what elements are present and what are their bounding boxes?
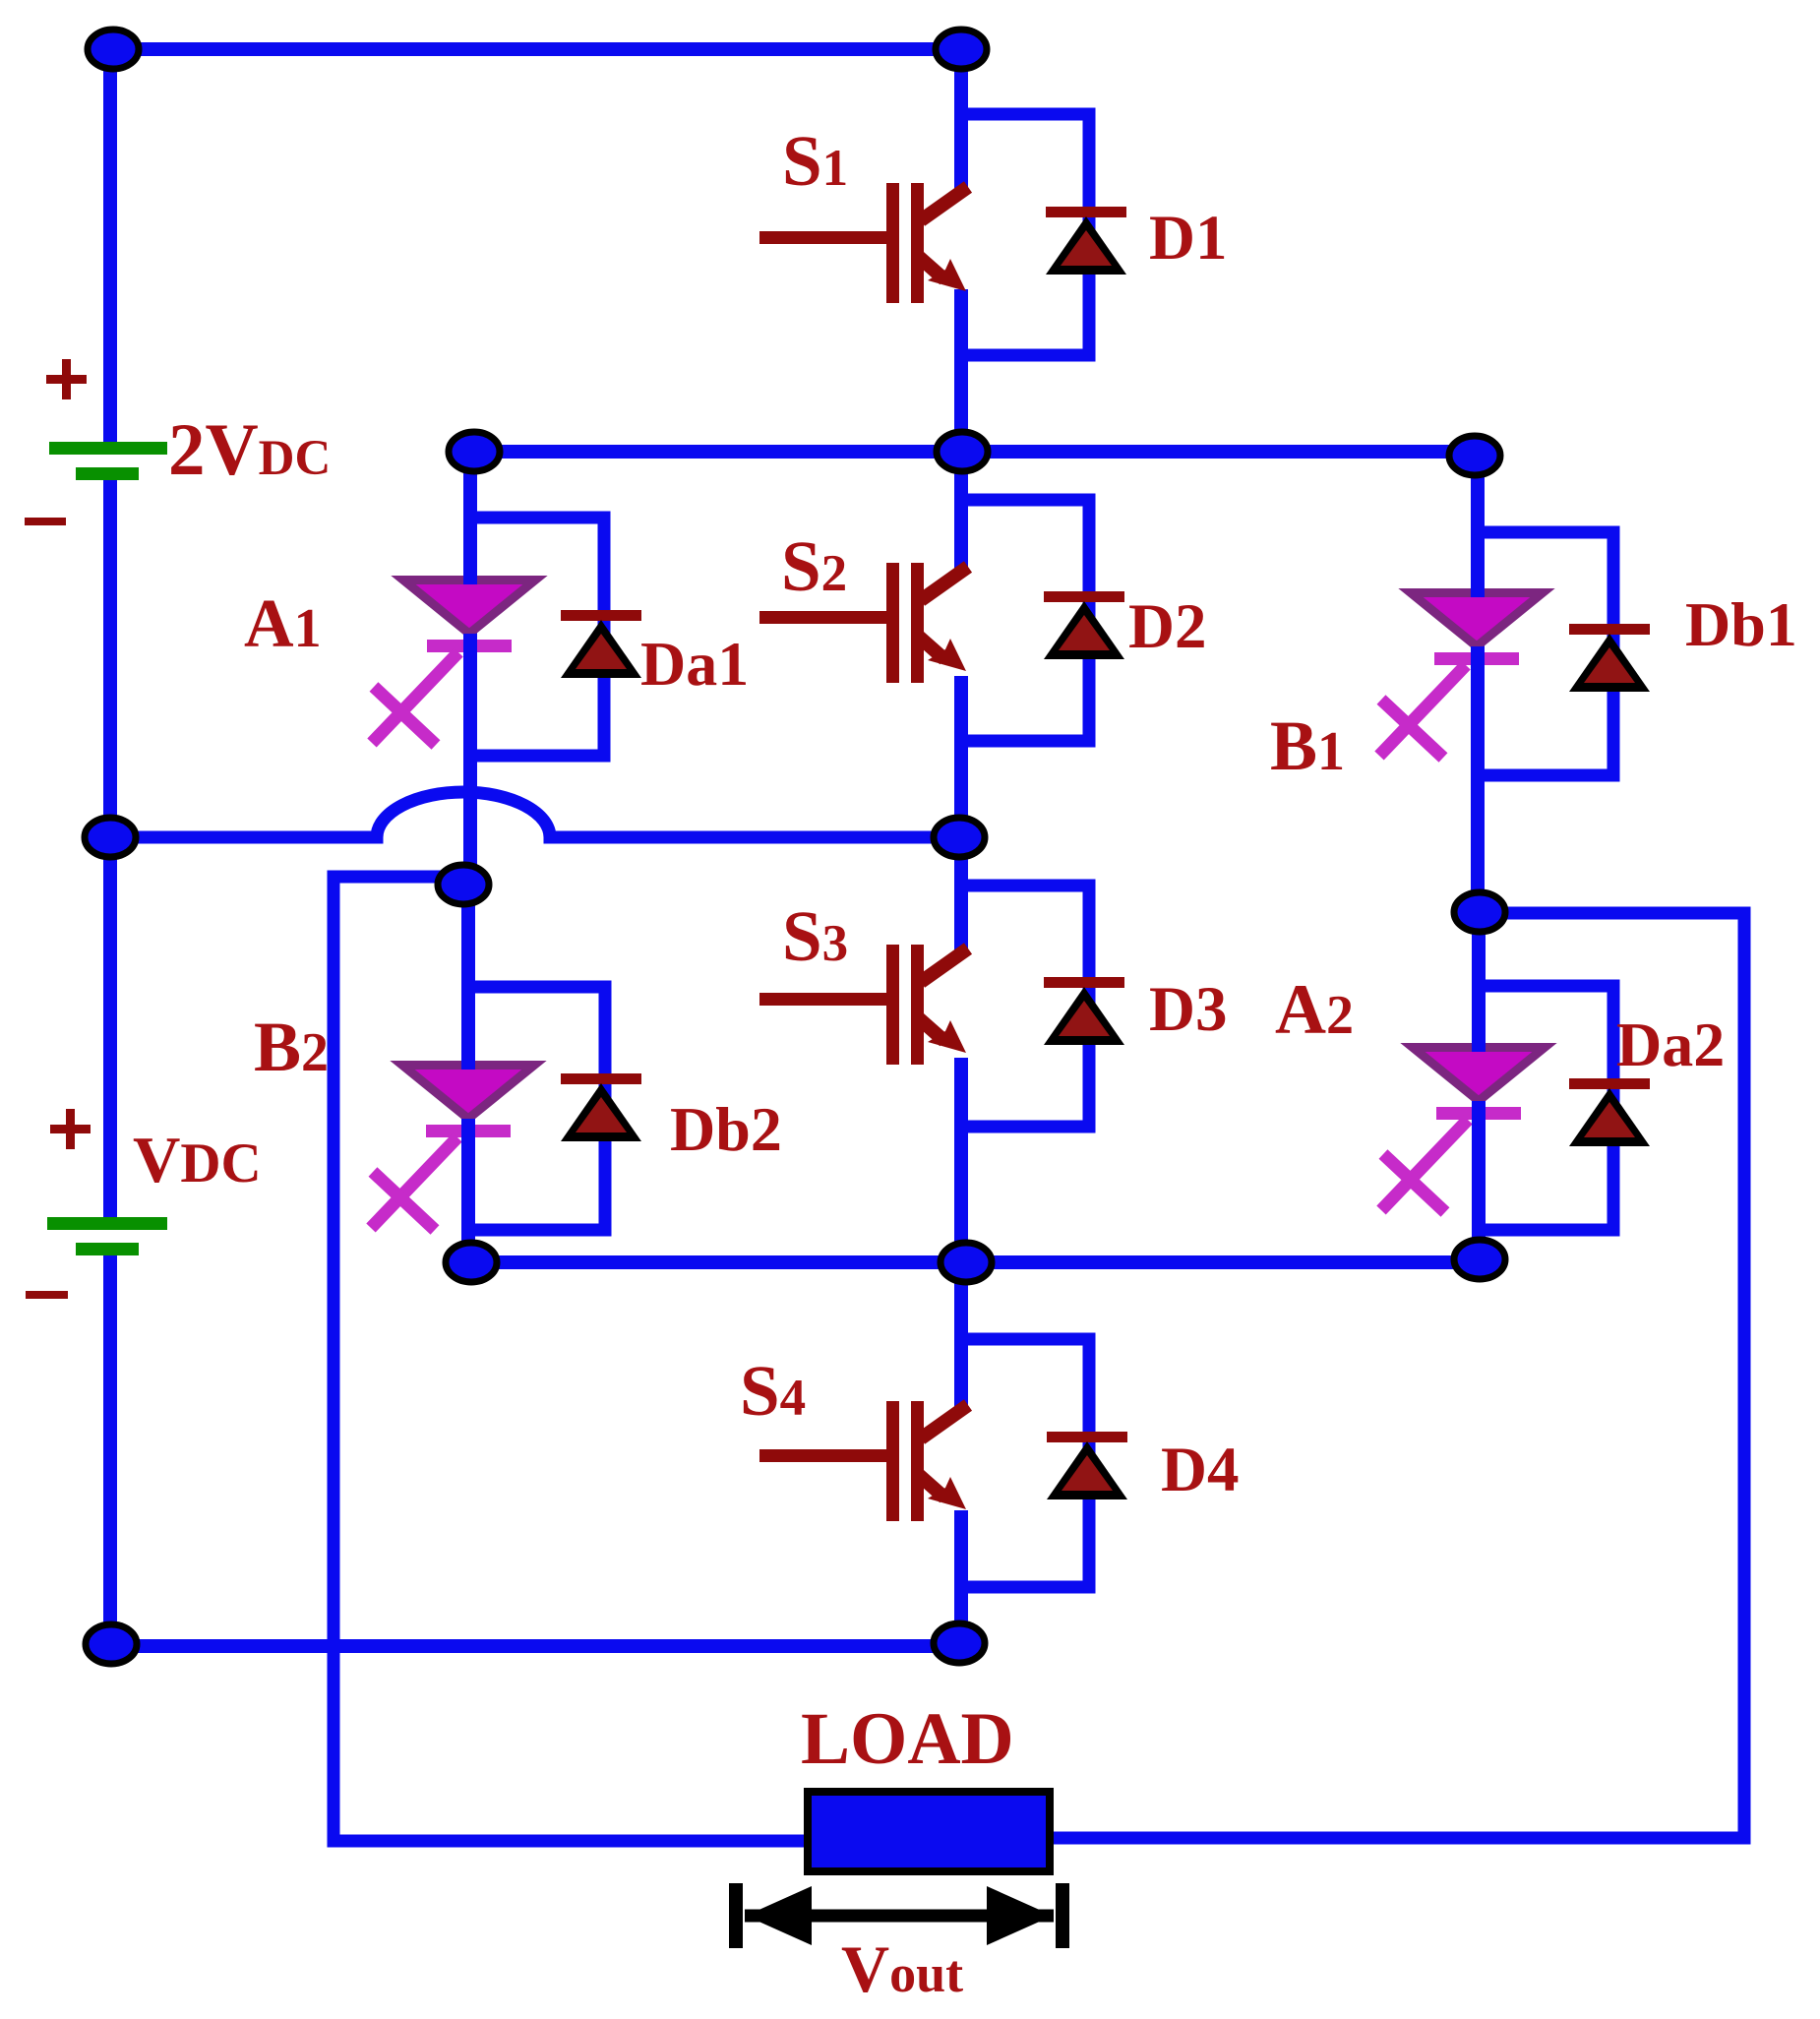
wire S2 collector [954, 452, 968, 571]
wire S3 collector [954, 837, 968, 952]
node N3 [449, 432, 500, 471]
transistor S4 [759, 1401, 968, 1521]
thyristor switch B1 [1379, 593, 1543, 759]
wire left spine from VDC - to bottom node [103, 1252, 117, 1644]
transistor S1 [759, 183, 968, 303]
svg-text:D1: D1 [1149, 203, 1227, 274]
wire S4 emitter [954, 1510, 968, 1643]
wire top rail [113, 42, 961, 56]
wire left spine upper (to 2VDC +) [103, 49, 117, 443]
node N10 [446, 1243, 497, 1282]
svg-text:A1: A1 [244, 586, 322, 662]
wire Db2 loop [468, 987, 605, 1230]
node N4 [937, 432, 988, 471]
wire B2 cathode overlay [461, 1051, 475, 1245]
diode Db1 [1569, 624, 1650, 692]
svg-text:Da1: Da1 [640, 629, 749, 699]
load resistor box [808, 1792, 1050, 1871]
battery VDC [47, 1217, 167, 1255]
wire A1 cathode overlay [463, 566, 477, 763]
svg-text:D3: D3 [1149, 974, 1227, 1045]
wire D4 loop [961, 1339, 1089, 1587]
node N7 [438, 865, 489, 904]
transistor S3 [759, 945, 968, 1065]
plus sign of VDC [50, 1109, 91, 1149]
wire Da2 loop [1479, 986, 1613, 1230]
node N14 [934, 1623, 985, 1663]
wire bottom rail [111, 1639, 959, 1653]
node N1 [88, 30, 139, 69]
node N8 [934, 818, 985, 857]
minus sign of 2VDC [25, 518, 66, 525]
diode D2 [1044, 591, 1124, 659]
thyristor switch A1 [372, 581, 535, 746]
wire D3 loop [961, 886, 1089, 1127]
node N5 [1449, 436, 1500, 475]
node N6 [85, 818, 136, 857]
wire B1 branch vertical [1471, 456, 1485, 912]
wire S1 emitter [954, 289, 968, 452]
node N9 [1454, 892, 1505, 932]
svg-text:VDC: VDC [133, 1124, 262, 1196]
wire B2 left leg [334, 877, 808, 1841]
node N13 [86, 1624, 137, 1664]
wire D2 loop [961, 500, 1089, 741]
node N12 [1454, 1240, 1505, 1279]
thyristor switch A2 [1381, 1048, 1545, 1213]
diode Da2 [1569, 1078, 1650, 1146]
diode D3 [1044, 977, 1124, 1045]
node N11 [940, 1243, 992, 1282]
svg-text:LOAD: LOAD [801, 1698, 1014, 1780]
wire D1 loop [961, 114, 1089, 355]
svg-text:Db1: Db1 [1685, 589, 1797, 659]
svg-text:Da2: Da2 [1616, 1009, 1725, 1079]
thyristor switch B2 [371, 1066, 534, 1231]
diode Da1 [561, 610, 641, 678]
transistor S2 [759, 563, 968, 683]
wire S2 emitter [954, 676, 968, 837]
wire Db1 loop [1478, 532, 1613, 775]
svg-text:D2: D2 [1128, 591, 1206, 662]
wire left spine from mid node to VDC + [103, 837, 117, 1223]
diode D4 [1047, 1432, 1127, 1499]
wire A2 branch vertical [1472, 912, 1486, 1259]
plus sign of 2VDC [46, 359, 87, 399]
wire S4 collector [954, 1262, 968, 1413]
battery 2VDC [49, 442, 167, 480]
Vout dimension arrow [729, 1883, 1069, 1948]
svg-text:Db2: Db2 [670, 1094, 782, 1164]
svg-text:D4: D4 [1161, 1435, 1239, 1505]
wire A2 cathode overlay [1472, 1033, 1486, 1238]
wire S3 emitter [954, 1058, 968, 1262]
wire Da1 loop [470, 518, 604, 756]
wire right rail [1050, 913, 1744, 1838]
wire S1 collector [954, 49, 968, 191]
wire A1 branch vertical [463, 452, 477, 885]
diode D1 [1046, 207, 1126, 275]
wire rail2 [474, 445, 1475, 459]
node N2 [936, 30, 987, 69]
wire B1 cathode overlay [1471, 579, 1485, 782]
wire mid rail with hop arc [110, 792, 959, 837]
minus sign of VDC [26, 1291, 68, 1299]
diode Db2 [561, 1073, 641, 1141]
wire left spine from 2VDC - to mid node [103, 478, 117, 837]
wire B2 branch vertical [461, 885, 475, 1262]
wire low rail [471, 1255, 1480, 1269]
